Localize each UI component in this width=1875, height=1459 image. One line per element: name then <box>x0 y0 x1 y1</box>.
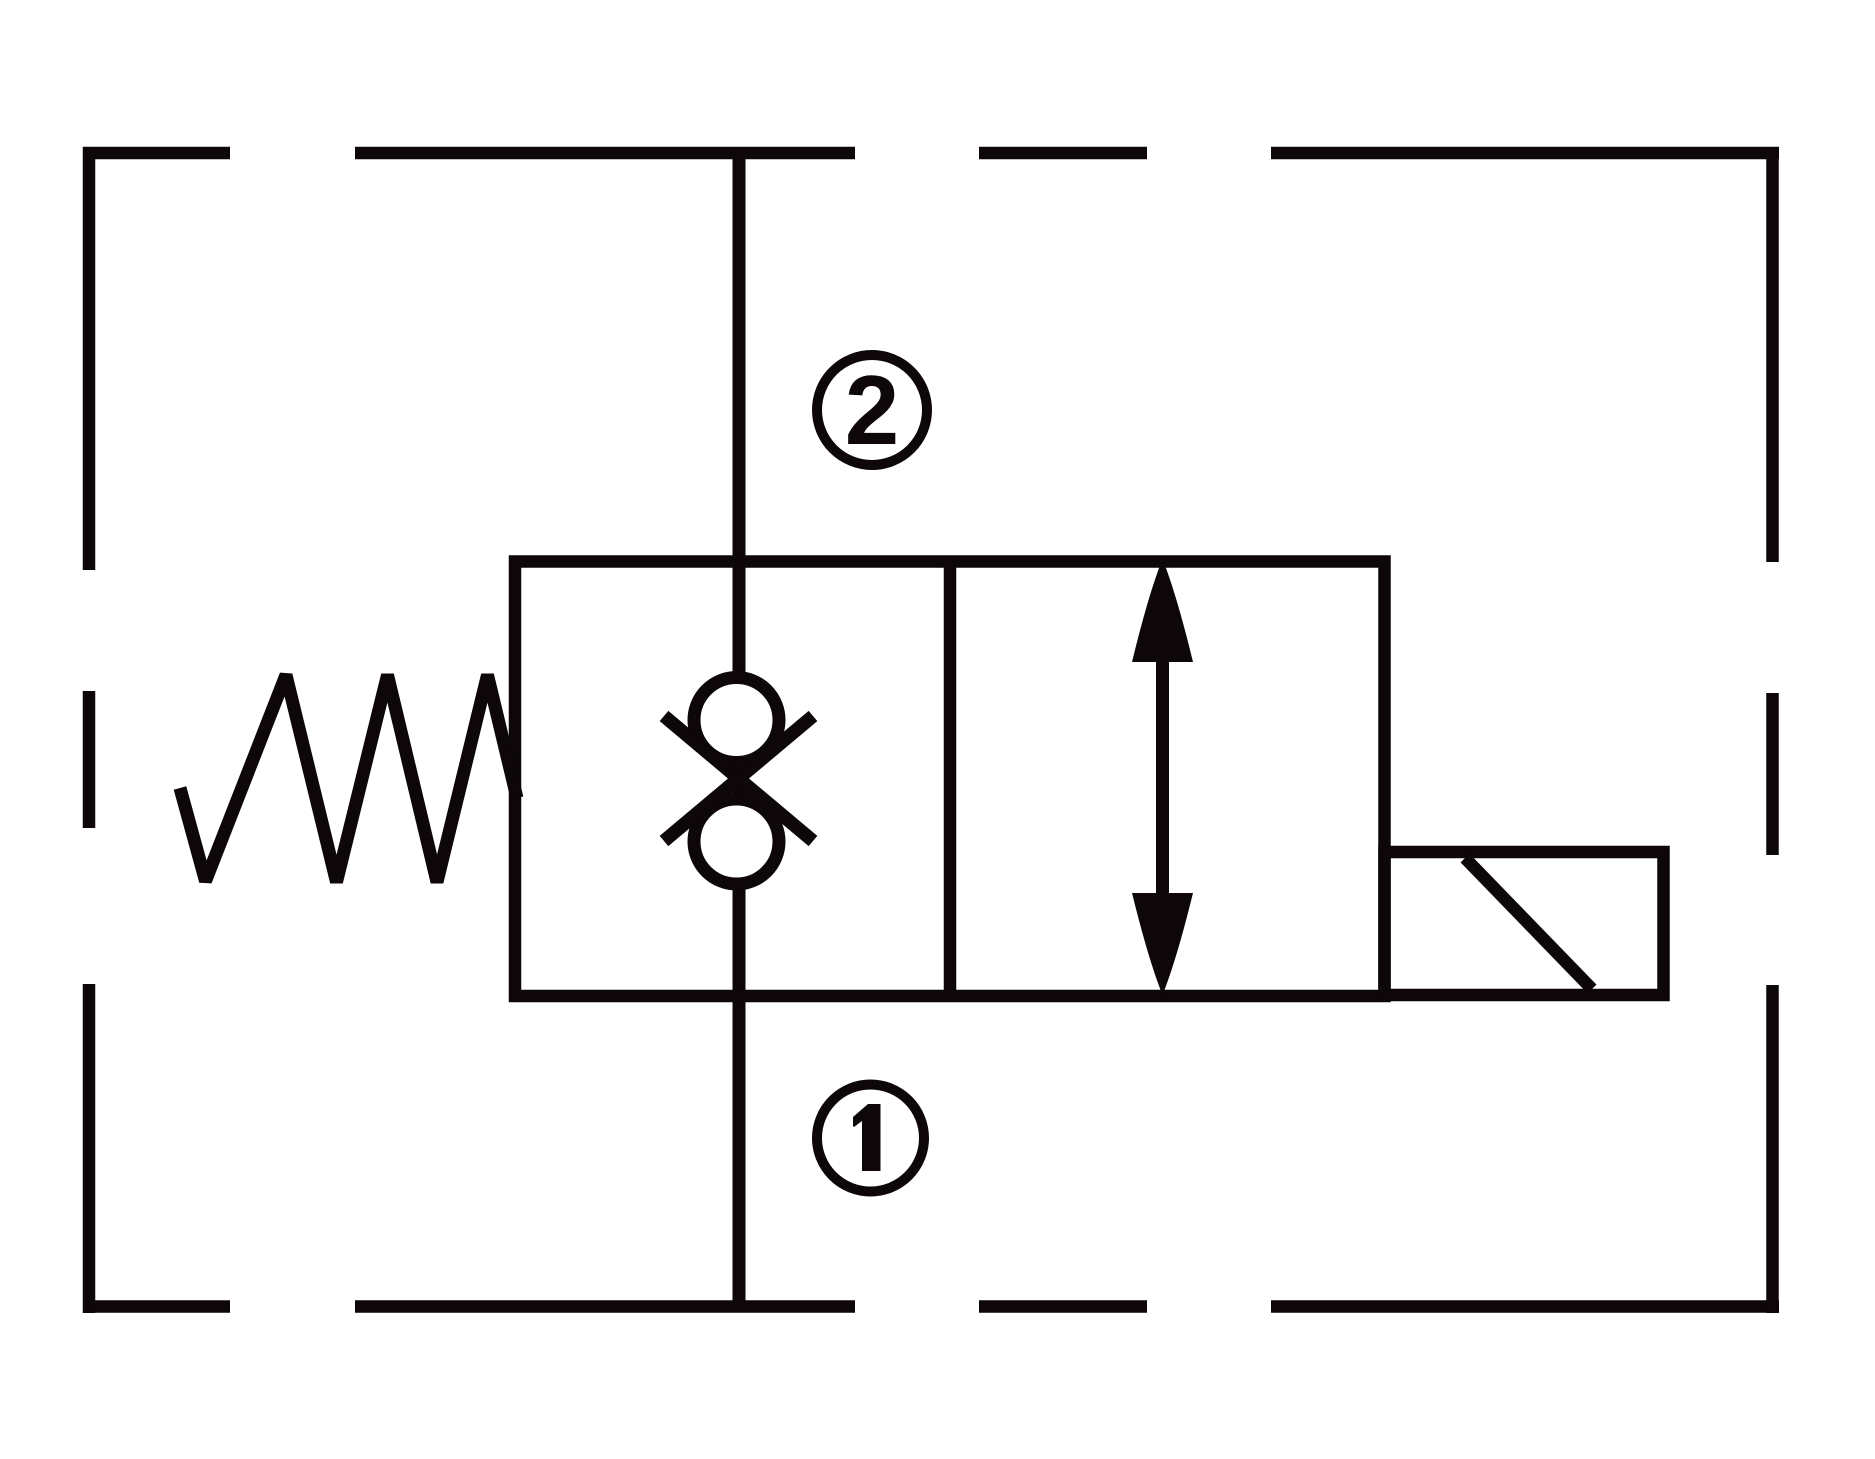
svg-text:2: 2 <box>845 355 900 465</box>
